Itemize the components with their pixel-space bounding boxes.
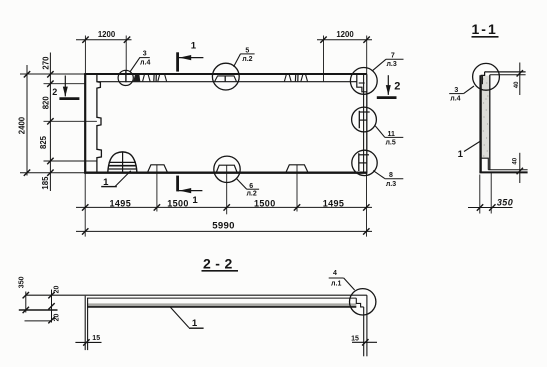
flange thickness dim line bottom bbox=[519, 153, 521, 183]
section 2-2 top surface line bbox=[26, 294, 367, 296]
svg-text:820: 820 bbox=[42, 96, 51, 110]
svg-text:л.3: л.3 bbox=[386, 181, 396, 188]
bottom dimension row line bbox=[76, 206, 372, 208]
dimension text 1500 b bbox=[254, 198, 276, 208]
left dimension chain outer line bbox=[26, 65, 28, 176]
label 3/l.4 (section) bbox=[449, 87, 463, 103]
dimension text 820 bbox=[42, 96, 51, 110]
left chain stub at 185 top bbox=[44, 160, 97, 162]
dimension text 40 bottom bbox=[512, 157, 518, 164]
label 3/l.4 bbox=[139, 51, 150, 67]
dimension 350 extension b bbox=[490, 173, 492, 214]
dimension 1200 left line bbox=[76, 39, 132, 41]
top rib joint tick pair A3 bbox=[154, 75, 157, 82]
leader to label 1 (section 1-1) bbox=[464, 142, 480, 152]
panel top edge extension left bbox=[20, 73, 85, 75]
panel right edge inner line bbox=[363, 74, 365, 172]
left 20 chain line (2-2) bbox=[51, 290, 53, 323]
detail circle 4 right end bbox=[350, 289, 376, 315]
extension line at mid span bbox=[226, 165, 228, 214]
svg-text:15: 15 bbox=[92, 335, 100, 342]
section 2-2 right corner step bbox=[356, 298, 363, 307]
dim 15 right leg (2-2) bbox=[351, 335, 377, 345]
label 8/l.3 bbox=[385, 172, 404, 188]
detail circle 3 centre tick bbox=[125, 70, 127, 82]
label 4/l.1 bbox=[329, 270, 344, 288]
svg-text:3: 3 bbox=[143, 51, 147, 58]
left stub at 321 (2-2) bbox=[25, 320, 53, 322]
svg-text:40: 40 bbox=[512, 157, 518, 164]
dimension text 270 bbox=[42, 56, 51, 70]
leader to label 1 (plan) bbox=[115, 171, 131, 187]
svg-text:350: 350 bbox=[19, 276, 26, 288]
svg-text:1: 1 bbox=[192, 318, 198, 329]
top rib joint mark A4 bbox=[158, 75, 167, 82]
panel top rib inner line bbox=[97, 81, 357, 83]
section 1-1 web right line bbox=[489, 75, 491, 170]
svg-text:4: 4 bbox=[333, 270, 337, 277]
section 2-2 second line bbox=[87, 297, 356, 299]
section 1-1 concrete speckle bbox=[483, 71, 489, 157]
dimension 350 line bbox=[468, 207, 513, 209]
section 1-1 web left line bbox=[479, 75, 481, 172]
section 2-2 left leg bbox=[85, 296, 87, 350]
corner key detail inside circle 7 bbox=[357, 74, 367, 92]
leader to label 4/l.1 bbox=[344, 278, 355, 290]
section marker 2 left bbox=[52, 76, 79, 99]
svg-text:2400: 2400 bbox=[17, 116, 26, 134]
dimension 1200 left ticks bbox=[82, 37, 130, 43]
svg-text:1: 1 bbox=[458, 149, 464, 160]
panel bottom edge extension left bbox=[20, 172, 85, 174]
section 1-1 top corner step bbox=[481, 72, 485, 76]
leader to label 3/l.4 (section) bbox=[464, 86, 474, 94]
left chain stub at 825 top bbox=[44, 120, 97, 122]
panel left edge bbox=[84, 74, 86, 174]
detail circle 8 bottom right corner bbox=[352, 150, 377, 175]
top rib joint mark B3 bbox=[301, 75, 308, 82]
top rib joint mark B1 bbox=[284, 75, 291, 82]
section 1-1 corner groove dash bbox=[481, 75, 483, 84]
flange thickness tick bottom bbox=[517, 168, 523, 174]
keyway detail inside circle 8 bbox=[359, 153, 369, 171]
section marker 1 top bbox=[178, 40, 204, 71]
section 1-1 concrete web fill bbox=[482, 76, 490, 159]
dimension 350 ticks bbox=[477, 204, 496, 210]
dimension 1200 right line bbox=[317, 39, 372, 41]
leader to label 8/l.3 bbox=[373, 171, 385, 179]
label 1 (section 1-1) bbox=[458, 149, 464, 160]
bottom total ticks bbox=[82, 228, 370, 234]
dimension 1200 left extension a bbox=[84, 36, 86, 75]
left chain stub at 820 top bbox=[44, 83, 86, 85]
svg-text:1-1: 1-1 bbox=[472, 21, 498, 37]
lifting loop dome bbox=[108, 152, 137, 172]
svg-text:40: 40 bbox=[514, 81, 520, 88]
dim 15 left leg (2-2) bbox=[75, 335, 101, 345]
svg-text:л.2: л.2 bbox=[242, 56, 252, 63]
top rib joint mark A2 bbox=[143, 75, 151, 82]
label 1 (plan) bbox=[101, 177, 117, 188]
panel top edge bbox=[84, 73, 367, 75]
label 1 (section 2-2) bbox=[189, 318, 204, 329]
dimension text 1495 a bbox=[109, 198, 131, 208]
leader to label 5/l.2 bbox=[234, 54, 241, 67]
svg-text:8: 8 bbox=[389, 172, 393, 179]
leader to label 6/l.2 bbox=[236, 178, 246, 189]
svg-text:1495: 1495 bbox=[323, 198, 345, 208]
svg-text:1495: 1495 bbox=[109, 198, 131, 208]
circle 5 centre tick bbox=[224, 76, 226, 82]
svg-text:л.4: л.4 bbox=[140, 60, 150, 67]
svg-text:20: 20 bbox=[54, 286, 61, 294]
detail circle 11 right edge bbox=[352, 107, 377, 132]
dimension 1200 left extension b bbox=[125, 36, 127, 71]
panel right edge outer line bbox=[366, 74, 368, 172]
extension line at 1500/1495 bbox=[296, 165, 298, 212]
section 1-1 bottom flange outer line bbox=[479, 171, 527, 173]
dimension text 350 (2-2) bbox=[19, 276, 26, 288]
svg-text:1500: 1500 bbox=[167, 198, 189, 208]
keyway detail inside circle 11 bbox=[359, 111, 369, 128]
svg-text:5990: 5990 bbox=[212, 220, 235, 231]
section 1-1 top flange outer line bbox=[485, 71, 526, 73]
svg-text:11: 11 bbox=[387, 131, 395, 138]
section title 1-1 bbox=[472, 21, 499, 37]
svg-text:л.4: л.4 bbox=[450, 95, 460, 102]
dimension 1200 right extension b bbox=[366, 36, 368, 75]
dimension text 40 top bbox=[514, 81, 520, 88]
svg-text:1: 1 bbox=[192, 195, 198, 206]
vent trapezoid 1 on bottom edge bbox=[148, 165, 168, 172]
left stub at 310 (2-2) bbox=[19, 309, 58, 311]
detail circle 3 on top edge bbox=[118, 70, 133, 85]
dimension 1200 right extension a bbox=[323, 36, 325, 82]
svg-text:270: 270 bbox=[42, 56, 51, 70]
svg-text:7: 7 bbox=[391, 52, 395, 59]
leader to label 7/l.3 bbox=[373, 59, 386, 70]
extension line at 1495/1500 bbox=[156, 165, 158, 212]
svg-text:1: 1 bbox=[191, 40, 197, 51]
extension line right edge down bbox=[366, 174, 368, 237]
dimension text 20 lower (2-2) bbox=[54, 314, 61, 322]
detail circle 3 in section 1-1 bbox=[473, 63, 500, 90]
dimension 350 extension a bbox=[479, 175, 481, 214]
bottom total dimension line bbox=[76, 230, 372, 232]
left dimension chain inner line bbox=[49, 53, 51, 192]
section title 2-2 bbox=[202, 256, 239, 272]
svg-text:825: 825 bbox=[39, 135, 48, 149]
leader to label 1 (section 2-2) bbox=[170, 307, 189, 328]
svg-text:л.3: л.3 bbox=[386, 61, 396, 68]
section 1-1 top flange inner line bbox=[490, 74, 526, 76]
svg-text:1200: 1200 bbox=[98, 30, 116, 39]
top rib joint tick pair B2 bbox=[295, 75, 298, 82]
left chain inner ticks bbox=[47, 71, 53, 176]
flange thickness tick top bbox=[517, 70, 523, 76]
dimension text 1500 a bbox=[167, 198, 189, 208]
svg-text:15: 15 bbox=[351, 335, 359, 342]
dimension 1200 right ticks bbox=[320, 37, 370, 43]
section 1-1 bottom flange inner line bbox=[488, 169, 527, 171]
label 11/l.5 bbox=[385, 131, 404, 147]
dimension 1200 left text bbox=[98, 30, 116, 39]
svg-text:л.2: л.2 bbox=[246, 191, 256, 198]
vent trapezoid inside circle 6 bbox=[216, 165, 237, 172]
section marker 2 right bbox=[377, 75, 401, 97]
svg-text:2: 2 bbox=[394, 80, 400, 92]
dimension text 1495 b bbox=[323, 198, 345, 208]
svg-text:1500: 1500 bbox=[254, 198, 276, 208]
detail circle 6 on bottom edge bbox=[214, 156, 240, 182]
dimension text 825 bbox=[39, 135, 48, 149]
svg-text:2: 2 bbox=[52, 87, 57, 97]
vent trapezoid 2 on bottom edge bbox=[286, 165, 308, 172]
dimension 1200 right text bbox=[336, 30, 354, 39]
dimension text 2400 bbox=[17, 116, 26, 134]
section 2-2 slab soffit line bbox=[87, 306, 356, 308]
flange thickness dim line top bbox=[519, 63, 521, 96]
section 1-1 bottom keyway notch bbox=[481, 158, 489, 170]
dimension text 20 upper (2-2) bbox=[54, 286, 61, 294]
left 350 ticks (2-2) bbox=[23, 292, 29, 313]
svg-text:л.5: л.5 bbox=[385, 139, 395, 146]
section 2-2 slab grey band bbox=[87, 303, 356, 306]
svg-text:185: 185 bbox=[41, 176, 50, 190]
svg-text:1200: 1200 bbox=[336, 30, 354, 39]
dimension text 350 (section 1-1) bbox=[497, 197, 513, 207]
svg-text:2-2: 2-2 bbox=[203, 256, 237, 272]
left rib keyed inner profile bbox=[97, 74, 102, 172]
svg-text:20: 20 bbox=[54, 314, 61, 322]
panel bottom edge bbox=[84, 171, 367, 173]
svg-text:л.1: л.1 bbox=[331, 280, 341, 287]
dimension text 5990 bbox=[212, 220, 235, 231]
svg-text:3: 3 bbox=[454, 87, 458, 94]
extension line left edge down bbox=[84, 174, 86, 237]
left 350 dim line (2-2) bbox=[25, 292, 27, 313]
bottom row ticks bbox=[82, 204, 370, 210]
leader to label 3/l.4 bbox=[130, 58, 140, 72]
section 2-2 right leg bbox=[364, 295, 367, 356]
top rib joint mark A1 (filled) bbox=[133, 75, 140, 82]
left chain outer ticks bbox=[24, 71, 30, 176]
label 6/l.2 bbox=[246, 183, 259, 198]
keyway trapezoid inside circle 5 bbox=[215, 76, 237, 82]
left 20 chain ticks (2-2) bbox=[48, 292, 54, 323]
leader to label 11/l.5 bbox=[375, 126, 385, 138]
dimension text 185 bbox=[41, 176, 50, 190]
detail circle 7 top right corner bbox=[350, 68, 377, 95]
section marker 1 bottom bbox=[178, 176, 203, 206]
label 7/l.3 bbox=[386, 52, 404, 68]
detail circle 5 on top edge bbox=[212, 63, 239, 90]
label 5/l.2 bbox=[240, 48, 254, 64]
svg-text:350: 350 bbox=[497, 197, 513, 207]
